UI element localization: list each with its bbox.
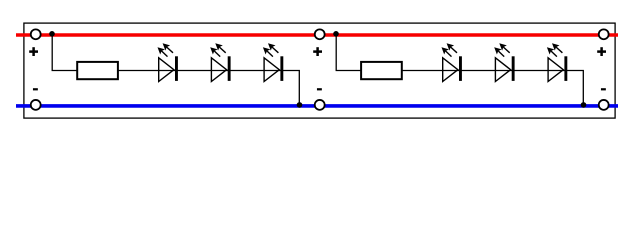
wire section 1 <box>52 35 299 106</box>
terminal bottom-middle <box>315 100 325 110</box>
terminal top-right <box>599 29 609 39</box>
label + right <box>597 47 606 56</box>
terminal top-middle <box>315 29 325 39</box>
wire section 2 <box>336 35 583 106</box>
terminal top-left <box>31 29 41 39</box>
board outline <box>24 23 615 118</box>
label - left <box>33 88 38 90</box>
LED D6 <box>547 43 567 81</box>
label + left <box>29 47 38 56</box>
LED D5 <box>494 43 514 81</box>
junction dot red rail 1 <box>49 31 55 37</box>
LED D1 <box>158 43 178 81</box>
junction dot blue rail 2 <box>581 102 587 108</box>
terminal bottom-left <box>31 100 41 110</box>
label - right <box>601 88 606 90</box>
resistor R1 <box>77 62 118 79</box>
LED D3 <box>263 43 283 81</box>
label + middle <box>313 47 322 56</box>
GND rail (blue) <box>16 104 618 108</box>
junction dot red rail 2 <box>333 31 339 37</box>
LED D4 <box>442 43 462 81</box>
junction dot blue rail 1 <box>297 102 303 108</box>
LED D2 <box>210 43 230 81</box>
terminal bottom-right <box>599 100 609 110</box>
+V rail (red) <box>16 33 618 37</box>
label - middle <box>317 88 322 90</box>
resistor R2 <box>361 62 402 79</box>
